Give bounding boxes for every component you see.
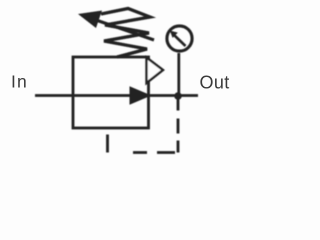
svg-text:In: In bbox=[11, 72, 28, 92]
gauge needle bbox=[174, 35, 186, 47]
regulator body box bbox=[73, 57, 149, 128]
adjustment arrow shaft bbox=[93, 19, 154, 40]
pressure gauge G1 bbox=[167, 26, 192, 51]
adjustment arrow head bbox=[78, 11, 102, 29]
gauge needle arrowhead bbox=[170, 31, 178, 38]
pilot line: dashed drop from box bottom bbox=[106, 130, 109, 153]
pilot line: dashed rise to output node bbox=[177, 96, 180, 153]
relief check valve triangle bbox=[147, 58, 164, 84]
gauge stem bbox=[177, 53, 180, 95]
spring (zigzag) bbox=[101, 9, 150, 58]
svg-text:Out: Out bbox=[200, 73, 230, 93]
wire: Out line bbox=[148, 94, 198, 97]
flow arrow inside box bbox=[130, 87, 150, 104]
wire: In supply line bbox=[35, 94, 131, 97]
node: output junction bbox=[174, 92, 182, 100]
pilot line: dashed bottom run bbox=[109, 151, 178, 154]
